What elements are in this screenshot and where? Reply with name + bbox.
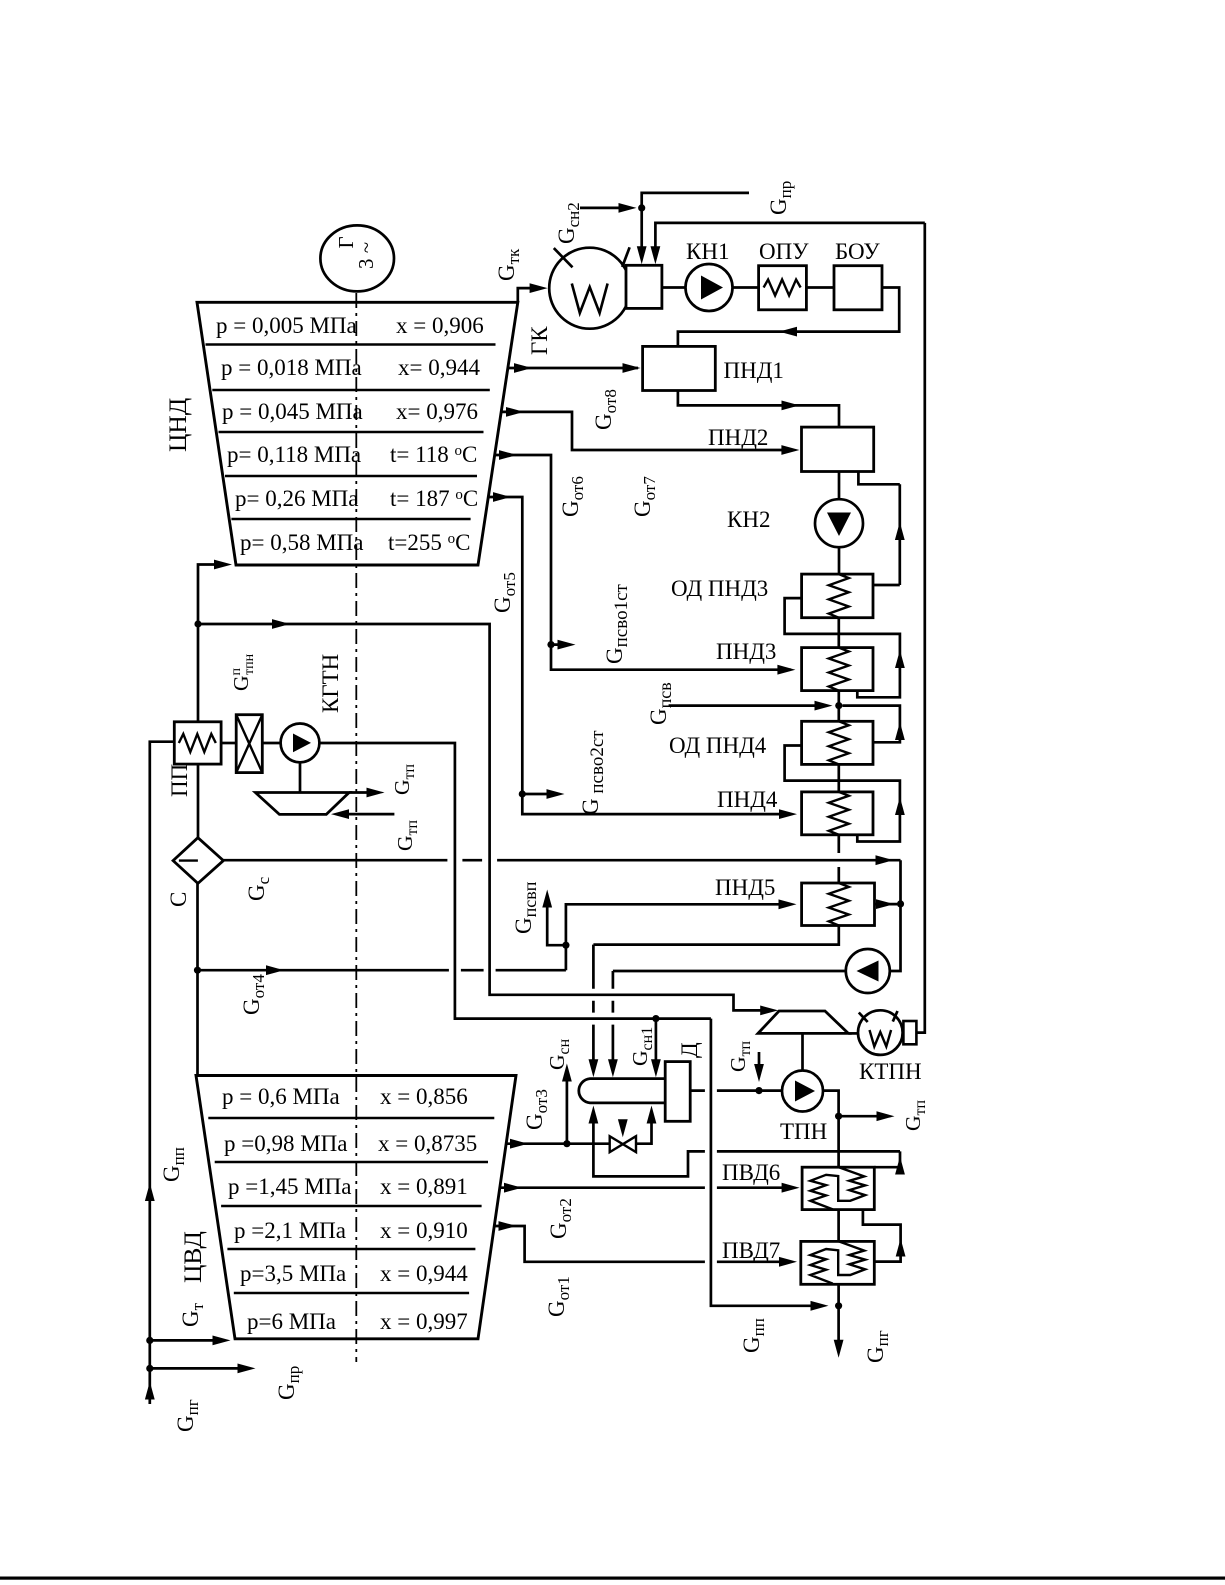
CND stage separator line 2 (212, 389, 490, 391)
wire extraction Got2 to PVD6 (500, 1186, 793, 1189)
wire main condensate PND4 down to PND5 (837, 835, 840, 883)
wire KGTN pump discharge to deaerator (319, 743, 711, 1019)
PVD6 coil (810, 1167, 865, 1209)
CVD stage separator line 2 (215, 1161, 488, 1163)
wire Gtp inlet stub to KGTN turbine (339, 813, 395, 816)
svg-text:ОПУ: ОПУ (759, 239, 809, 264)
wire Gtp outlet stub (839, 1115, 887, 1118)
svg-text:ПНД5: ПНД5 (715, 875, 775, 900)
wire PND3 drain loop into OD PND3 (785, 598, 900, 697)
wire separator down to CVD exhaust (196, 883, 199, 1075)
svg-text:Д: Д (677, 1042, 702, 1058)
svg-text:t= 187 оС: t= 187 оС (390, 486, 478, 511)
node Gpp junction (835, 1302, 842, 1309)
svg-text:ПНД2: ПНД2 (708, 425, 768, 450)
wire extraction Got4 to PND5 with Gpsvp tap (198, 904, 791, 970)
svg-text:ПП: ПП (167, 764, 192, 797)
svg-text:p =0,98 МПа: p =0,98 МПа (224, 1131, 348, 1156)
wire PND1 condensate to PND2 (678, 391, 839, 428)
OPU zigzag element (764, 280, 801, 296)
svg-text:p= 0,118 МПа: p= 0,118 МПа (227, 442, 361, 467)
node Gtp discharge tee (835, 1113, 842, 1120)
reheater PP box (174, 722, 221, 764)
wire main condensate OD PND4 to PND4 (837, 764, 840, 792)
wire valve to pump KGTN (262, 742, 281, 745)
KTPN W symbol (870, 1030, 892, 1047)
wire BOU outlet loop to PND1 (678, 288, 899, 346)
CVD stage separator line 4 (227, 1248, 475, 1250)
generator label (334, 236, 378, 269)
HP turbine cylinder CVD trapezoid (196, 1076, 516, 1339)
wire Gpr blowdown stub (150, 1367, 248, 1370)
condenser GK circle (549, 248, 630, 329)
svg-text:p = 0,018 МПа: p = 0,018 МПа (221, 355, 362, 380)
wire feedwater PVD7 to boiler Gpg (837, 1284, 840, 1350)
generator G 3~ (320, 225, 394, 291)
condenser GK right tick (622, 247, 629, 267)
wire Gpr line and drop into hotwell (642, 193, 749, 257)
svg-text:ПНД4: ПНД4 (717, 787, 778, 812)
wire reheat bus to reheater PP (197, 624, 200, 722)
heater PND2 box (802, 427, 874, 471)
wire PP heating steam line Gpp left bus (150, 742, 175, 1404)
CND stage separator line 3 (219, 431, 484, 433)
control valve bowtie (610, 1136, 636, 1152)
svg-text:t=255 оС: t=255 оС (388, 530, 470, 555)
wire PND2 drain stub to bypass (858, 472, 899, 485)
svg-text:3 ~: 3 ~ (354, 242, 378, 269)
svg-text:КГТН: КГТН (318, 654, 343, 713)
wire right return bus down to KTPN (916, 223, 924, 1033)
CND stage separator line 4 (225, 475, 477, 477)
separator S inner tick (179, 859, 198, 861)
wire Gpsv inlet (669, 704, 825, 707)
drain cooler OD PND3 box (802, 574, 873, 618)
wire steam to TPN drive turbine Gp tpn (198, 624, 771, 1010)
svg-text:x = 0,944: x = 0,944 (380, 1261, 468, 1286)
wire extraction Got3 with Gsn tap and control valve (506, 1119, 652, 1144)
wire extraction Got6 to PND3 (495, 455, 791, 670)
LP turbine cylinder CND trapezoid (197, 302, 518, 565)
svg-text:x = 0,910: x = 0,910 (380, 1218, 468, 1243)
turbine axis dash-dot centerline (355, 293, 357, 1362)
wire PP outlet to stop valve (221, 742, 236, 745)
svg-text:ОД ПНД4: ОД ПНД4 (669, 733, 767, 758)
control valve stem arrow (621, 1121, 624, 1129)
svg-text:x = 0,856: x = 0,856 (380, 1084, 468, 1109)
svg-text:x = 0,906: x = 0,906 (396, 313, 484, 338)
svg-text:БОУ: БОУ (835, 239, 880, 264)
wire Gpsvo1st outlet stub (551, 643, 568, 646)
demineralizer BOU box (834, 266, 882, 310)
wire OD PND4 outlet to Gpsv node (842, 706, 900, 743)
svg-text:x = 0,8735: x = 0,8735 (378, 1131, 477, 1156)
wire PND5 condensate to deaerator (593, 926, 838, 1070)
wire Gsn2 into hotwell junction (580, 207, 629, 210)
wire Gt into CVD inlet (150, 1339, 223, 1342)
wire TPN turbine shaft to pump (801, 1033, 804, 1070)
svg-text:ПВД6: ПВД6 (722, 1160, 780, 1185)
svg-text:p=3,5 МПа: p=3,5 МПа (240, 1261, 346, 1286)
wire PVD7 drain cascade into PVD6 (863, 1210, 901, 1262)
heater PND4 box (802, 792, 873, 835)
node Gpsv junction (835, 702, 842, 709)
wire Gtp outlet stub from KGTN turbine (349, 791, 377, 794)
KTPN right tick (893, 1011, 898, 1022)
svg-text:КН2: КН2 (727, 507, 770, 532)
svg-text:x= 0,976: x= 0,976 (396, 399, 478, 424)
wire Gpsvo2st outlet stub (522, 793, 557, 796)
svg-text:ОД ПНД3: ОД ПНД3 (671, 576, 768, 601)
wire extraction Got7 to PND2 (502, 412, 794, 450)
heater PVD7 box (801, 1241, 875, 1284)
wire KN1 to OPU (733, 286, 759, 289)
TPN drive turbine trapezoid (758, 1011, 848, 1033)
wire PND4 drain loop into OD PND4 (785, 746, 900, 842)
PP zigzag element (179, 734, 216, 752)
wire TPN turbine exhaust to KTPN (848, 1032, 858, 1035)
svg-text:p = 0,6 МПа: p = 0,6 МПа (222, 1084, 340, 1109)
ejector unit OPU box (759, 266, 807, 310)
svg-text:x = 0,891: x = 0,891 (380, 1174, 468, 1199)
deaerator tank (579, 1079, 665, 1103)
wire separator water Gs to drain collector (223, 860, 900, 971)
KTPN left tick (859, 1013, 868, 1023)
page bottom border line (0, 1577, 1225, 1580)
svg-text:t= 118 оС: t= 118 оС (390, 442, 477, 467)
separator S diamond (173, 838, 223, 884)
wire drain pump discharge to deaerator (613, 971, 846, 1070)
wire extraction Got1 to PVD7 (494, 1226, 790, 1262)
wire CND steam admission from reheat bus (198, 565, 225, 625)
node Gpsvp tap (562, 942, 569, 949)
wire KN2 to OD PND3 (838, 547, 841, 574)
svg-text:ЦНД: ЦНД (163, 398, 192, 452)
drain cooler OD PND4 box (802, 721, 873, 764)
wire OPU to BOU (806, 286, 834, 289)
wire OD PND3 outlet bypass up to PND2 (873, 484, 900, 585)
svg-text:p= 0,26 МПа: p= 0,26 МПа (235, 486, 359, 511)
svg-text:p= 0,58 МПа: p= 0,58 МПа (240, 530, 364, 555)
condenser KTPN circle (858, 1010, 903, 1055)
stop valve box with X (236, 715, 262, 773)
CVD stage separator line 1 (208, 1117, 494, 1119)
heater PND1 box (643, 346, 716, 390)
wire branch down into deaerator (655, 1019, 658, 1070)
wire main condensate OD PND3 to PND3 (837, 618, 840, 648)
CND stage separator line 5 (231, 518, 470, 520)
node reheat bus tee (194, 620, 201, 627)
svg-text:ПНД3: ПНД3 (716, 639, 776, 664)
arrow Gpg input from below (145, 1382, 155, 1400)
svg-text:ТПН: ТПН (780, 1119, 827, 1144)
node junction Gsn2/Gpr (638, 204, 645, 211)
svg-text:С: С (166, 892, 191, 907)
svg-text:ГК: ГК (527, 326, 552, 355)
node deaerator feed tee (652, 1015, 659, 1022)
svg-text:КН1: КН1 (686, 239, 729, 264)
wire KGTN pump shaft to drive turbine (299, 762, 302, 792)
heater PVD6 box (802, 1167, 874, 1209)
node Gt tap (146, 1337, 153, 1344)
wire extraction Got8 to PND1 (508, 367, 638, 370)
svg-text:p=6 МПа: p=6 МПа (247, 1309, 336, 1334)
heater PND3 box (802, 648, 873, 691)
KGTN drive turbine trapezoid (255, 793, 349, 815)
pump TPN (782, 1071, 823, 1112)
node Gpsvo1st tap (547, 641, 554, 648)
wire PVD6 drain to deaerator bottom (593, 1120, 900, 1176)
wire PND2 to pump KN2 (838, 472, 841, 500)
KTPN hotwell box (903, 1021, 916, 1044)
node PND5 drain junction (897, 900, 904, 907)
wire PND5 drain out (875, 903, 898, 906)
pump KN2 (815, 499, 863, 547)
CVD stage separator line 5 (234, 1292, 469, 1294)
wire main condensate PND3 down (837, 691, 840, 722)
wire Gtk from CND exhaust to condenser (518, 288, 540, 302)
node Gsn tap (563, 1140, 570, 1147)
wire Gpsvp outlet arrow (547, 897, 566, 945)
svg-text:ПНД1: ПНД1 (724, 358, 784, 383)
pump KN1 (686, 264, 733, 311)
svg-text:p =1,45 МПа: p =1,45 МПа (228, 1174, 352, 1199)
node Gtp feed tee (755, 1087, 762, 1094)
wire TPN discharge to PVD6 (823, 1091, 839, 1167)
pump KGTN (281, 724, 320, 763)
wire Gtp admission arrow (758, 1052, 761, 1073)
wire extraction Got5 to PND4 (489, 497, 790, 814)
condenser GK cooling W symbol (572, 284, 608, 314)
svg-text:ПВД7: ПВД7 (722, 1238, 780, 1263)
svg-text:p = 0,045 МПа: p = 0,045 МПа (222, 399, 363, 424)
svg-text:p = 0,005 МПа: p = 0,005 МПа (216, 313, 357, 338)
condenser GK left tick (554, 248, 573, 267)
wire condensate return to hotwell from right bus (655, 223, 924, 257)
wire Gpp to PVD7 outlet junction (711, 1019, 821, 1306)
node Got4 tap on CVD exhaust line (194, 967, 201, 974)
svg-text:КТПН: КТПН (859, 1059, 922, 1084)
CND stage separator line 1 (206, 343, 496, 345)
node Gpr tap (146, 1365, 153, 1372)
svg-text:x= 0,944: x= 0,944 (398, 355, 480, 380)
svg-text:x = 0,997: x = 0,997 (380, 1309, 468, 1334)
wire hotwell to pump KN1 (662, 286, 686, 289)
drain pump of PND5 (846, 949, 890, 993)
heater PND5 box (802, 883, 875, 926)
svg-text:p =2,1 МПа: p =2,1 МПа (234, 1218, 346, 1243)
svg-text:ЦВД: ЦВД (178, 1231, 207, 1283)
node Gpsvo2st tap (519, 790, 526, 797)
PVD7 coil (810, 1241, 865, 1283)
condenser hotwell box (626, 265, 662, 308)
deaerator column D (665, 1062, 690, 1122)
CVD stage separator line 3 (221, 1205, 482, 1207)
wire feedwater PVD6 to PVD7 (837, 1210, 840, 1242)
wire Gsn outlet arrow (566, 1071, 569, 1144)
wire PP to separator S (197, 764, 200, 838)
wire deaerator outlet to TPN suction (690, 1089, 782, 1092)
